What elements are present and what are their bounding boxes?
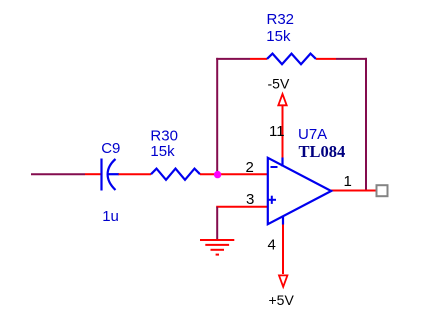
svg-text:-5V: -5V xyxy=(268,75,290,91)
svg-text:1u: 1u xyxy=(102,208,119,225)
wire feedback top right xyxy=(336,58,367,60)
wire to ground xyxy=(216,207,218,240)
svg-text:TL084: TL084 xyxy=(299,142,346,161)
svg-text:U7A: U7A xyxy=(298,126,327,143)
svg-text:1: 1 xyxy=(344,173,352,190)
capacitor C9 xyxy=(85,159,119,191)
junction node A xyxy=(214,171,221,178)
svg-text:C9: C9 xyxy=(101,140,120,157)
wire pin 1 output lead xyxy=(331,190,377,192)
wire feedback top left xyxy=(216,58,250,60)
wire feedback vertical right xyxy=(365,58,367,191)
svg-text:4: 4 xyxy=(268,237,276,254)
power -5V arrow xyxy=(278,94,286,159)
svg-text:15k: 15k xyxy=(266,28,291,45)
wire feedback vertical left xyxy=(216,58,218,175)
svg-text:+5V: +5V xyxy=(269,292,295,308)
svg-text:2: 2 xyxy=(246,159,254,176)
wire input segment xyxy=(31,173,85,175)
svg-text:R32: R32 xyxy=(267,11,295,28)
svg-text:R30: R30 xyxy=(150,128,178,145)
resistor R30 xyxy=(151,169,200,180)
ground xyxy=(200,240,234,255)
svg-text:15k: 15k xyxy=(150,143,175,160)
op-amp U7A xyxy=(268,158,331,225)
svg-text:11: 11 xyxy=(269,123,285,140)
wire C9 to R30 xyxy=(119,173,152,175)
svg-text:3: 3 xyxy=(246,191,254,208)
power +5V arrow xyxy=(279,224,287,287)
resistor R32 xyxy=(250,54,336,65)
wire R30 to node A / pin 2 lead xyxy=(200,173,268,175)
output port xyxy=(377,185,388,196)
wire pin 3 lead xyxy=(216,206,267,208)
